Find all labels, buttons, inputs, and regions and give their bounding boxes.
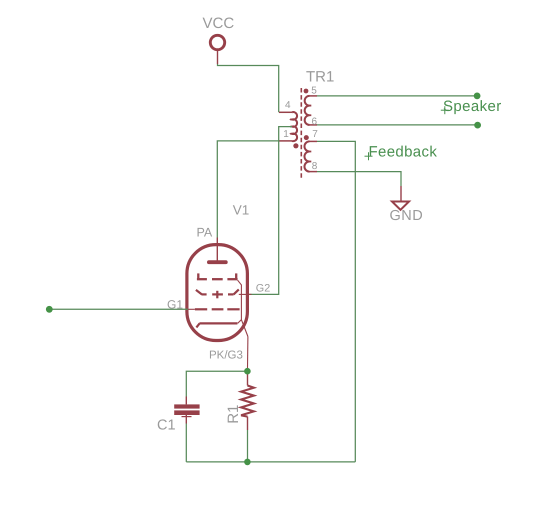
transformer TR1 primary winding (pins 4, tap, 1) xyxy=(279,112,297,141)
wire VCC to TR1 pin 4 xyxy=(218,64,279,112)
tube V1 pin G1 xyxy=(188,308,195,310)
transformer TR1 polarity dot pin 7 xyxy=(304,135,309,140)
node junction bottom rail xyxy=(244,459,251,466)
svg-text:Feedback: Feedback xyxy=(369,144,438,161)
svg-text:VCC: VCC xyxy=(203,15,235,32)
svg-text:C1: C1 xyxy=(157,418,176,434)
net label Speaker xyxy=(441,98,502,115)
wire TR1 primary tap to V1 grid G2 xyxy=(249,127,292,295)
svg-text:GND: GND xyxy=(390,208,424,224)
tube V1 grid G3 row xyxy=(197,273,238,279)
wire C1 bottom to rail xyxy=(185,424,187,462)
tube V1 envelope xyxy=(187,245,248,341)
capacitor C1 xyxy=(157,397,200,434)
svg-text:6: 6 xyxy=(312,117,318,128)
wire TR1 pin 8 to GND xyxy=(317,172,401,186)
tube V1 pin G2 xyxy=(239,293,252,295)
svg-text:7: 7 xyxy=(312,129,318,140)
tube V1 anode PA xyxy=(197,225,228,264)
wire G1 input xyxy=(49,308,188,310)
svg-text:G2: G2 xyxy=(256,282,270,294)
node Speaker endpoint pin 5 xyxy=(474,93,481,100)
transformer TR1 core (dashed) xyxy=(300,88,302,179)
svg-text:R1: R1 xyxy=(225,405,242,424)
resistor R1 xyxy=(225,371,254,430)
wire TR1 pin 1 to V1 anode PA xyxy=(217,141,279,238)
wire cathode junction to C1 top xyxy=(186,371,247,396)
tube V1 pin PK/G3 xyxy=(247,337,249,369)
wire TR1 pin 7 to cathode rail (Feedback net) xyxy=(317,141,355,462)
svg-text:PA: PA xyxy=(197,225,213,239)
svg-text:4: 4 xyxy=(285,100,291,111)
svg-text:Speaker: Speaker xyxy=(443,98,502,115)
svg-text:5: 5 xyxy=(311,86,317,97)
svg-text:TR1: TR1 xyxy=(306,69,334,86)
tube V1 grid G2 row xyxy=(196,289,239,298)
node G1 input endpoint xyxy=(46,306,53,313)
ground GND xyxy=(390,186,424,224)
tube V1 internal G3-cathode link xyxy=(238,280,248,336)
wire R1 bottom to rail xyxy=(247,430,249,462)
transformer TR1 polarity dot pin 5 xyxy=(304,89,309,94)
node junction cathode top xyxy=(244,368,251,375)
tube V1 cathode xyxy=(196,323,237,327)
svg-text:V1: V1 xyxy=(233,203,250,218)
svg-text:8: 8 xyxy=(312,161,318,172)
tube V1 grid G1 row xyxy=(195,308,240,310)
svg-text:1: 1 xyxy=(283,129,289,140)
net label Feedback xyxy=(365,144,438,161)
transformer TR1 secondary winding 5-6 xyxy=(305,96,317,125)
wire TR1 pin 5 to Speaker xyxy=(317,95,477,97)
transformer TR1 polarity dot pin 1 xyxy=(293,143,298,148)
node Speaker endpoint pin 6 xyxy=(474,122,481,129)
power VCC xyxy=(203,15,235,64)
wire bottom rail xyxy=(186,461,355,463)
svg-text:PK/G3: PK/G3 xyxy=(209,350,243,362)
transformer TR1 secondary winding 7-8 xyxy=(304,141,317,171)
wire TR1 pin 6 to Speaker xyxy=(317,124,478,126)
